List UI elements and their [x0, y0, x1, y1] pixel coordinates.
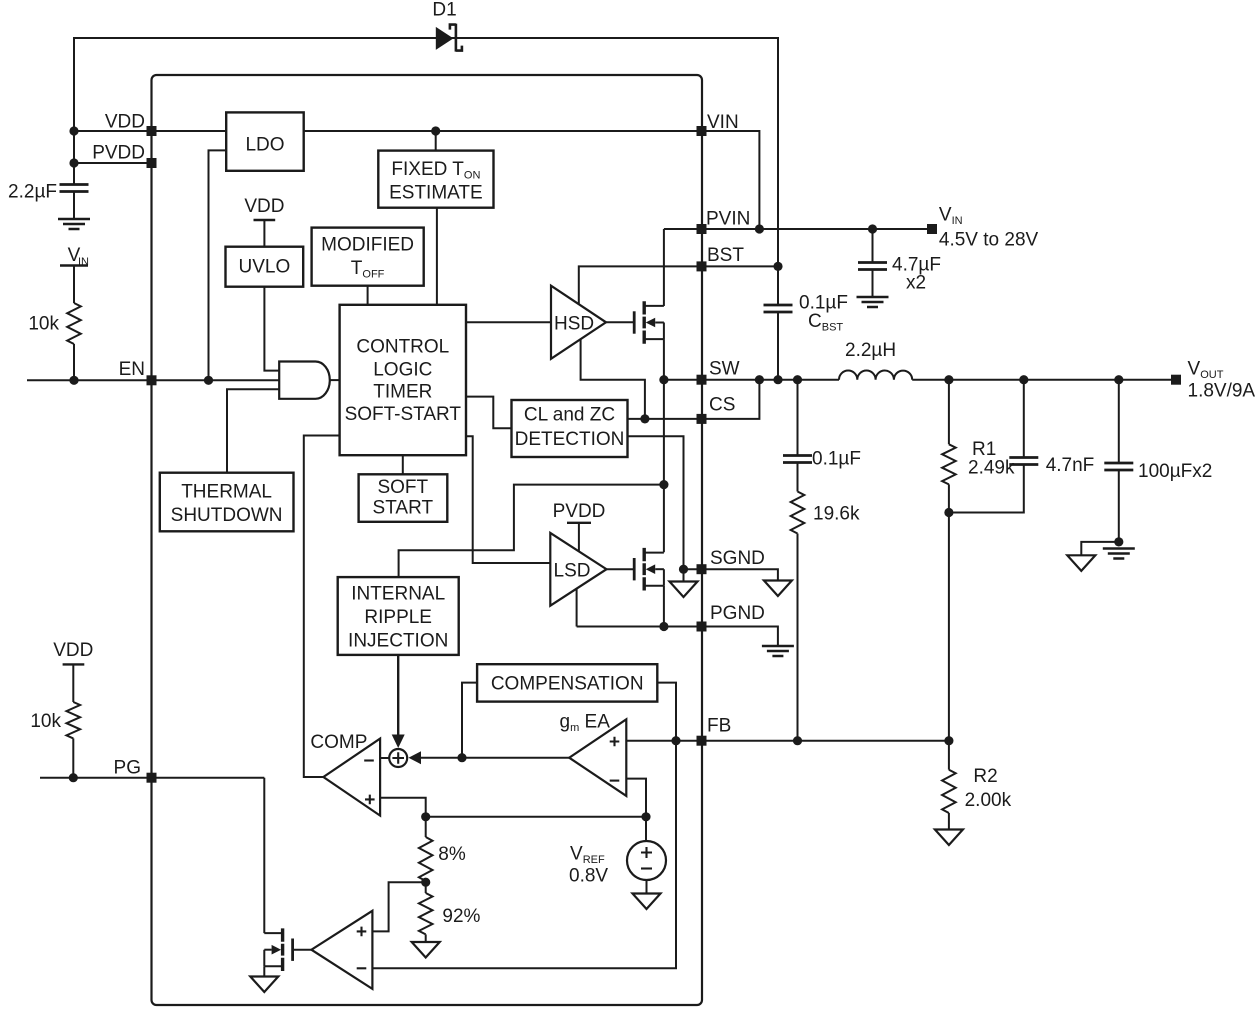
pin FB [697, 716, 732, 746]
wire CS internal row [628, 418, 702, 420]
svg-text:INTERNAL: INTERNAL [351, 584, 445, 605]
pin CS [697, 395, 736, 424]
svg-text:ESTIMATE: ESTIMATE [389, 183, 483, 204]
wire Q1 drain to PVIN [663, 229, 665, 306]
ground (2.2uF) [58, 219, 90, 229]
svg-text:0.1µF: 0.1µF [812, 449, 861, 470]
wire PGND row [577, 626, 702, 628]
ground (SGND internal) [670, 569, 698, 597]
resistor 92% [419, 881, 481, 934]
node output cap ground junction [1114, 537, 1123, 546]
svg-text:COMP: COMP [310, 732, 367, 753]
wire control to LSD [466, 436, 550, 563]
svg-text:D1: D1 [432, 0, 456, 21]
ground (R2) [935, 830, 963, 846]
comparator PG [311, 911, 372, 989]
svg-text:LOGIC: LOGIC [373, 360, 432, 381]
pin PVDD [92, 143, 156, 169]
ground (PGND external) [762, 646, 794, 656]
node SW internal junction [659, 375, 668, 384]
node 100uF junction [1114, 375, 1123, 384]
wire PGND external [702, 627, 778, 646]
svg-text:PVDD: PVDD [92, 143, 145, 164]
node PVDD label (LSD supply) [553, 501, 606, 551]
svg-text:SGND: SGND [710, 548, 765, 569]
wire UVLO to AND gate [264, 287, 279, 371]
pin PVIN [697, 209, 751, 235]
svg-text:2.00k: 2.00k [965, 790, 1012, 811]
arrow EA output into summing node [409, 751, 422, 764]
node VDD junction [69, 126, 78, 135]
wire MODIFIED TOFF to control logic [367, 286, 369, 305]
wire Q1 source to SW node [663, 339, 665, 380]
wire control to HSD [466, 321, 551, 323]
wire LSD to Q2 gate [607, 568, 635, 570]
svg-text:2.2µF: 2.2µF [8, 182, 57, 203]
svg-text:SW: SW [709, 359, 740, 380]
pin SW [697, 359, 740, 385]
IC block boundary [152, 75, 703, 1005]
capacitor 0.1uF (feedforward) [783, 380, 861, 470]
node PVDD junction [69, 158, 78, 167]
transistor Q3 PG open-drain NFET [264, 928, 292, 971]
ground (VREF) [633, 894, 661, 910]
block MODIFIED TOFF [312, 228, 424, 286]
node HSD rail / CS junction [640, 414, 649, 423]
wire 10k to PG row [72, 738, 74, 777]
wire SGND external [702, 569, 778, 580]
node EN/LDO junction [204, 376, 213, 385]
svg-text:0.1µF: 0.1µF [799, 293, 848, 314]
transistor Q1 high-side NFET [634, 301, 664, 344]
block CL and ZC DETECTION [512, 400, 628, 457]
node PGND junction [659, 622, 668, 631]
svg-text:CONTROL: CONTROL [356, 337, 449, 358]
resistor R1 2.49k [942, 380, 1015, 485]
node VIN/PVIN junction [755, 224, 764, 233]
svg-text:CL and ZC: CL and ZC [524, 405, 615, 426]
capacitor 100uF x2 [1104, 380, 1212, 542]
wire FB to PG comparator minus [372, 741, 676, 969]
svg-text:HSD: HSD [554, 314, 594, 335]
wire FIXED TON to control logic [436, 208, 438, 305]
wire ripple injection tap [399, 485, 664, 577]
wire AND output to control logic [330, 379, 340, 381]
wire divider tap to PG comparator plus [372, 882, 425, 931]
node 4.7uF junction [868, 224, 877, 233]
wire Q3 source to ground [263, 966, 265, 976]
wire Vin stub to 10k [73, 266, 75, 304]
resistor 10k (PG pullup) [30, 702, 80, 738]
wire EN row [27, 379, 279, 381]
pin VIN [697, 112, 739, 136]
wire FB external row [702, 740, 949, 742]
ground (divider) [412, 942, 440, 958]
wire inductor to VOUT [912, 379, 1171, 381]
terminal VOUT output [1171, 359, 1255, 402]
arrow ripple into summing node [392, 735, 405, 749]
svg-text:1.8V/9A: 1.8V/9A [1188, 381, 1256, 402]
svg-text:4.7nF: 4.7nF [1046, 455, 1095, 476]
node VREF/EA- junction [641, 812, 650, 821]
svg-text:0.8V: 0.8V [569, 866, 608, 887]
wire ripple injection to summing node [397, 655, 399, 741]
block INTERNAL RIPPLE INJECTION [338, 577, 459, 655]
wire compensation to FB [657, 683, 676, 741]
node divider tap junction [421, 878, 430, 887]
node R1 junction [944, 375, 953, 384]
resistor 10k (EN pullup) [28, 303, 80, 344]
svg-text:TIMER: TIMER [373, 382, 432, 403]
gate U1 AND (enable) [279, 362, 330, 399]
wire summing node to COMP minus [380, 757, 389, 759]
wire to signal ground (output) [1081, 542, 1119, 555]
svg-text:LSD: LSD [554, 561, 591, 582]
svg-text:LDO: LDO [245, 135, 284, 156]
inductor L1 2.2uH [839, 340, 912, 380]
node FB/19.6k junction [793, 736, 802, 745]
node EA output / compensation junction [457, 753, 466, 762]
svg-text:UVLO: UVLO [239, 257, 291, 278]
ground (SGND external) [764, 581, 792, 597]
block COMPENSATION [477, 664, 657, 701]
wire VDD pin to LDO [152, 130, 227, 132]
wire SW node down to Q2 drain [663, 380, 665, 553]
ground (100uF earth) [1103, 549, 1135, 559]
svg-text:R2: R2 [973, 766, 997, 787]
wire R1 bottom to FB [948, 484, 950, 740]
svg-text:BST: BST [707, 245, 744, 266]
node SGND junction [679, 565, 688, 574]
svg-text:SHUTDOWN: SHUTDOWN [171, 505, 283, 526]
svg-text:8%: 8% [438, 844, 466, 865]
wire divider row to VREF [426, 816, 646, 818]
wire BST external [702, 265, 779, 267]
node VDD label (UVLO supply) [244, 196, 284, 247]
node Vin pullup label [60, 245, 89, 268]
wire control to COMP output [304, 436, 340, 778]
capacitor 2.2uF [8, 182, 88, 219]
pin VDD [105, 112, 157, 137]
wire VDD node to D1 anode and down to BST/CBST [74, 38, 778, 266]
terminal VIN input [927, 205, 1039, 251]
driver HSD [551, 286, 606, 359]
node LDO/FIXED-TON junction [431, 126, 440, 135]
wire EA plus input to FB [626, 740, 701, 742]
capacitor 4.7nF [949, 380, 1094, 513]
svg-text:10k: 10k [30, 711, 61, 732]
node FB/R2 junction [944, 736, 953, 745]
wire SW to inductor [702, 379, 840, 381]
wire VIN to PVIN rail [702, 131, 760, 229]
wire 10k to EN [73, 344, 75, 380]
wire HSD to Q1 gate [606, 321, 634, 323]
wire 4.7uF top [872, 229, 874, 263]
wire CS riser [702, 380, 760, 419]
wire LSD bottom rail to PGND [576, 589, 578, 627]
ground (4.7uF) [857, 297, 889, 307]
diode D1 (schottky) [432, 0, 462, 52]
block THERMAL SHUTDOWN [160, 473, 294, 532]
svg-text:CS: CS [709, 395, 735, 416]
svg-text:100µFx2: 100µFx2 [1138, 461, 1212, 482]
svg-text:gm EA: gm EA [560, 712, 611, 735]
svg-text:RIPPLE: RIPPLE [364, 607, 432, 628]
ground (100uF signal) [1067, 555, 1095, 571]
pin SGND [697, 548, 765, 574]
wire SGND row [684, 568, 702, 570]
node PG junction [69, 773, 78, 782]
svg-text:SOFT-START: SOFT-START [345, 404, 462, 425]
wire Q3 drain to PG row [263, 778, 265, 933]
ground (Q3 source) [250, 977, 278, 993]
block CONTROL LOGIC TIMER SOFT-START [340, 305, 466, 455]
pin PGND [697, 603, 765, 632]
wire detection to SGND [628, 436, 684, 569]
wire LDO output to VIN pin [304, 130, 702, 132]
wire VREF to ground [646, 880, 648, 894]
svg-text:INJECTION: INJECTION [348, 631, 448, 652]
svg-text:PVDD: PVDD [553, 501, 606, 522]
wire PVIN internal [664, 228, 702, 230]
node VDD label (PG pullup) [53, 640, 93, 702]
svg-text:VIN: VIN [707, 112, 739, 133]
svg-text:4.5V to 28V: 4.5V to 28V [939, 230, 1039, 251]
node EA+ / FB junction [671, 736, 680, 745]
svg-text:START: START [373, 498, 434, 519]
op-amp gm EA [560, 712, 627, 796]
wire VDD to capacitor [73, 131, 75, 185]
svg-text:VDD: VDD [105, 112, 145, 133]
resistor 19.6k [791, 463, 860, 534]
svg-text:10k: 10k [28, 314, 59, 335]
capacitor 4.7uF x2 [858, 255, 941, 297]
wire compensation to EA output [462, 683, 477, 758]
wire control to SOFT START [402, 455, 404, 474]
capacitor CBST 0.1uF [764, 266, 848, 379]
pin EN [119, 359, 157, 385]
svg-text:SOFT: SOFT [377, 477, 428, 498]
svg-text:x2: x2 [906, 273, 926, 294]
block SOFT START [359, 474, 448, 522]
wire HSD bottom rail to CS [581, 339, 645, 419]
wire 92% to ground [425, 934, 427, 942]
wire VDD row (outside) [74, 130, 152, 132]
wire THERMAL to AND gate [227, 389, 279, 473]
svg-text:EN: EN [119, 359, 145, 380]
svg-text:2.2µH: 2.2µH [845, 340, 896, 361]
driver LSD [550, 533, 606, 606]
svg-text:19.6k: 19.6k [813, 504, 860, 525]
wire EA output [419, 757, 569, 759]
wire Q2 source to PGND row [663, 586, 665, 627]
wire PG comparator to Q3 gate [293, 949, 312, 951]
node SW/0.1uF-19.6k junction [793, 375, 802, 384]
svg-text:MODIFIED: MODIFIED [321, 235, 414, 256]
svg-text:92%: 92% [442, 906, 480, 927]
svg-text:VDD: VDD [53, 640, 93, 661]
node SW/CS riser junction [755, 375, 764, 384]
svg-text:2.49k: 2.49k [968, 458, 1015, 479]
node R1/4.7nF junction [944, 508, 953, 517]
wire EA minus input to VREF [626, 779, 646, 817]
block LDO [226, 112, 304, 170]
wire SW internal row [664, 379, 702, 381]
svg-text:PG: PG [114, 758, 141, 779]
svg-text:THERMAL: THERMAL [181, 482, 272, 503]
wire PVDD row (outside) [74, 162, 152, 164]
svg-text:FB: FB [707, 716, 731, 737]
svg-text:DETECTION: DETECTION [515, 429, 625, 450]
node divider top junction [421, 812, 430, 821]
wire control to CL/ZC detection [466, 397, 512, 429]
pin BST [697, 245, 745, 271]
wire BST to HSD top rail [579, 266, 702, 304]
node SW/CBST junction [773, 375, 782, 384]
node ripple tap junction [659, 480, 668, 489]
svg-text:PVIN: PVIN [706, 209, 750, 230]
wire R2 to ground [948, 813, 950, 830]
resistor R2 2.00k [942, 741, 1011, 813]
resistor 8% [419, 817, 466, 881]
wire 19.6k to FB row [797, 534, 799, 741]
svg-text:VDD: VDD [244, 196, 284, 217]
block FIXED TON ESTIMATE [378, 151, 493, 208]
wire PVIN row external [702, 228, 933, 230]
comparator COMP [310, 732, 380, 816]
node BST junction [773, 262, 782, 271]
summing node [389, 749, 407, 767]
wire LDO enable to EN [209, 150, 227, 380]
wire PG row [40, 777, 264, 779]
wire FIXED TON to VDD line [435, 131, 437, 151]
block UVLO [226, 247, 304, 287]
node EN junction [69, 376, 78, 385]
svg-text:COMPENSATION: COMPENSATION [491, 674, 644, 695]
source VREF 0.8V [569, 817, 666, 887]
transistor Q2 low-side NFET [634, 548, 664, 591]
svg-text:PGND: PGND [710, 603, 765, 624]
pin PG [114, 758, 157, 783]
node 4.7nF junction [1019, 375, 1028, 384]
wire COMP plus to divider [380, 798, 426, 817]
